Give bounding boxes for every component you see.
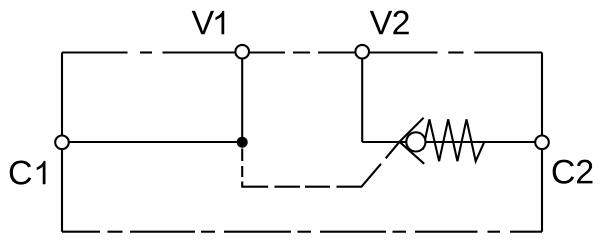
wire enclosure top chain line segment 2	[163, 51, 286, 53]
label C2 glyph C	[553, 160, 575, 184]
wire enclosure bottom chain line segment 2	[130, 231, 195, 233]
wire enclosure bottom chain line segment 6	[510, 231, 542, 233]
wire V2 leg down	[361, 53, 363, 143]
wire V2 to check valve and through spring to C2	[362, 141, 542, 143]
port C2	[535, 136, 549, 150]
pilot line dash 1 (vertical below junction)	[241, 149, 243, 162]
wire enclosure bottom chain line segment 1	[62, 231, 100, 233]
wire enclosure bottom chain short dash 1	[108, 231, 123, 233]
wire enclosure top chain line segment 1	[62, 51, 128, 53]
check valve seat upper arm	[400, 118, 424, 142]
wire enclosure top chain line short dash 2	[293, 51, 310, 53]
label C2 glyph 2	[577, 160, 592, 184]
junction dot	[237, 137, 248, 148]
port V2	[355, 45, 369, 59]
wire enclosure top chain line short dash 1	[140, 51, 152, 53]
wire enclosure top chain line segment 4	[474, 51, 542, 53]
check valve ball	[406, 132, 425, 151]
wire enclosure right edge	[541, 53, 543, 232]
label V1 glyph 1	[215, 11, 224, 34]
pilot line dash 6 (corner to diagonal)	[337, 164, 382, 187]
label V1 glyph V	[192, 11, 214, 34]
port C1	[55, 136, 69, 150]
wire enclosure bottom chain short dash 2	[201, 231, 215, 233]
wire enclosure bottom chain short dash 3	[298, 231, 312, 233]
wire enclosure bottom chain short dash 4	[393, 231, 407, 233]
wire enclosure bottom chain line segment 3	[224, 231, 291, 233]
wire enclosure left edge	[61, 53, 63, 232]
wire enclosure top chain line short dash 3	[448, 51, 463, 53]
pilot line dash 5	[305, 186, 330, 188]
spring of check valve	[423, 119, 484, 161]
pilot line dash 4	[275, 186, 301, 188]
pilot line dash 2 (vertical)	[241, 166, 243, 177]
label C1 glyph C	[10, 161, 32, 185]
label V2 glyph V	[370, 11, 392, 34]
pilot line dash 7 (diagonal to seat)	[386, 142, 400, 159]
wire enclosure top chain line segment 3	[318, 51, 438, 53]
wire C1 to junction	[62, 141, 242, 143]
wire V1 leg down to junction	[241, 53, 243, 143]
wire enclosure bottom chain line segment 4	[320, 231, 386, 233]
label V2 glyph 2	[393, 11, 408, 35]
port V1	[235, 45, 249, 59]
pilot line dash 3 (corner)	[242, 182, 268, 187]
label C1 glyph 1	[37, 161, 46, 184]
check valve seat lower arm	[400, 142, 425, 164]
wire enclosure bottom chain line segment 5	[415, 231, 478, 233]
wire enclosure bottom chain short dash 5	[488, 231, 501, 233]
